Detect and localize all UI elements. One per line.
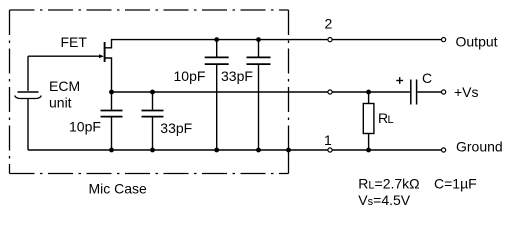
svg-text:33pF: 33pF: [160, 120, 192, 136]
svg-text:ECM: ECM: [49, 78, 80, 94]
svg-text:+Vs: +Vs: [454, 84, 479, 100]
svg-text:Output: Output: [456, 34, 498, 50]
svg-text:Vs=4.5V: Vs=4.5V: [358, 192, 410, 208]
svg-text:FET: FET: [61, 34, 88, 50]
svg-text:unit: unit: [49, 95, 72, 111]
svg-text:10pF: 10pF: [69, 119, 101, 135]
svg-text:2: 2: [325, 16, 333, 32]
svg-text:10pF: 10pF: [174, 68, 206, 84]
svg-text:C: C: [422, 70, 432, 86]
svg-text:33pF: 33pF: [221, 68, 253, 84]
svg-text:1: 1: [324, 132, 332, 148]
svg-text:Ground: Ground: [456, 139, 503, 155]
svg-text:Mic Case: Mic Case: [89, 181, 148, 197]
svg-text:RL=2.7kΩC=1µF: RL=2.7kΩC=1µF: [358, 176, 476, 192]
svg-text:L: L: [388, 114, 394, 126]
